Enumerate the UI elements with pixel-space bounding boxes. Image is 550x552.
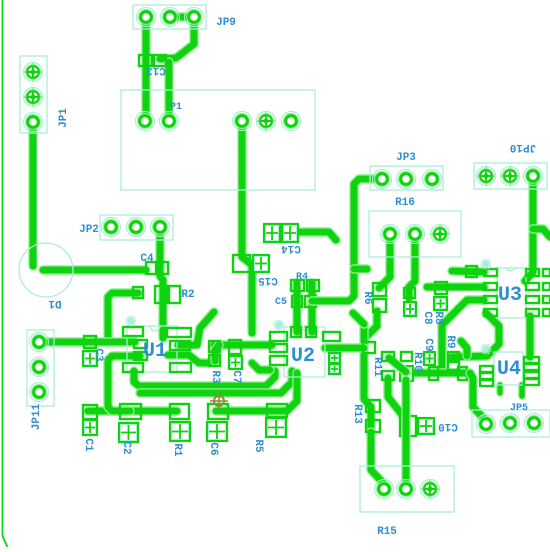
resistor R6: [373, 283, 386, 312]
wire P1-3 down to C15: [242, 121, 252, 333]
wire R4-1 C5-1 to U2: [292, 283, 301, 332]
capacitor C3: [84, 336, 96, 348]
wire horizontal R10 row: [409, 368, 470, 377]
svg-text:R3: R3: [209, 370, 221, 384]
resistor R16: [369, 211, 461, 257]
wire JP10-3 down to U3: [525, 176, 533, 281]
op-amp U2: [270, 327, 340, 377]
origin marker: [210, 392, 228, 410]
capacitor C2: [120, 404, 141, 419]
pad node C: [466, 266, 477, 277]
wire node to U1 pin1 elbow: [108, 293, 138, 338]
capacitor C6: [208, 404, 228, 419]
op-amp U3: [484, 268, 550, 318]
svg-text:JP9: JP9: [216, 17, 236, 29]
wire R4-2 C5-2 to U2: [307, 283, 316, 332]
wire JP9-3 to C13-2: [160, 17, 194, 59]
svg-text:U4: U4: [497, 358, 521, 381]
capacitor C10: [400, 416, 416, 436]
svg-text:C14: C14: [281, 242, 301, 254]
resistor R9: [448, 352, 459, 370]
wire U4 stub down: [518, 385, 526, 396]
svg-text:C7: C7: [230, 370, 242, 383]
pin1 mark U1: [126, 316, 137, 327]
pad node E: [458, 367, 467, 380]
svg-text:U2: U2: [291, 345, 315, 368]
diode D1 outline: [19, 243, 73, 297]
svg-text:R15: R15: [377, 526, 397, 538]
wire JP9-1 to P1-1: [141, 17, 150, 121]
svg-text:R16: R16: [395, 197, 415, 209]
op-amp U4: [480, 352, 539, 386]
svg-text:C6: C6: [207, 442, 219, 455]
svg-text:C13: C13: [146, 64, 166, 76]
wire long bottom trace B: [140, 371, 292, 393]
svg-text:C4: C4: [140, 253, 154, 265]
pin1 mark U2: [274, 320, 285, 331]
board edge: [3, 0, 8, 547]
connector JP5: [472, 410, 550, 437]
capacitor C1: [83, 405, 97, 419]
svg-text:R8: R8: [432, 311, 444, 325]
capacitor C4: [146, 262, 168, 274]
connector JP11: [27, 330, 54, 406]
wire JP2-3 down through C4 R2 to U1: [160, 227, 163, 338]
wire stub cap to vertical: [353, 313, 364, 324]
wire R11-1 diagonal: [389, 358, 406, 372]
wire U1 pin to C1 row: [88, 406, 177, 415]
connector JP9: [133, 5, 206, 29]
capacitor C15: [233, 255, 250, 272]
svg-text:C3: C3: [92, 348, 104, 362]
resistor R8: [435, 282, 447, 294]
wire JP10 branch right: [533, 229, 550, 237]
pad node B: [363, 342, 375, 353]
resistor R13: [366, 400, 380, 432]
wire JP11-1 to U1: [39, 337, 135, 346]
svg-text:C8: C8: [421, 311, 433, 325]
wire JP1-3 down-right: [28, 122, 37, 266]
svg-text:C10: C10: [438, 420, 458, 432]
resistor R11: [382, 352, 394, 380]
wire U3 right col to U4: [525, 316, 534, 357]
svg-text:JP11: JP11: [31, 403, 43, 430]
resistor R15: [360, 466, 454, 512]
wire U3 pin4 pentagon right: [452, 313, 499, 357]
pad node A: [133, 287, 143, 298]
pin1 mark U3: [481, 259, 492, 270]
wire main vertical to R13: [364, 325, 371, 432]
wire to JP5-1: [470, 373, 486, 421]
wire U3 pin3 long diagonal down: [430, 300, 484, 373]
connector JP1: [20, 56, 47, 133]
capacitor C5: [292, 296, 316, 307]
wire R8 to U3 pin2: [427, 282, 484, 291]
connector JP10: [474, 163, 547, 189]
wire JP9-2 to JP9-3: [170, 12, 194, 21]
svg-text:D1: D1: [48, 297, 62, 309]
wire U1 pin4 long bottom trace A: [134, 371, 275, 386]
svg-text:JP1: JP1: [58, 108, 70, 128]
svg-text:JP3: JP3: [396, 152, 416, 164]
wire trace to R3 C7 U2: [214, 340, 272, 349]
wire R6-2 down to node: [365, 311, 377, 338]
connector P1: [121, 90, 315, 190]
wire R13 to R15-1: [371, 432, 384, 489]
svg-text:R9: R9: [444, 335, 456, 348]
wire U1 pin3 elbow down: [108, 356, 140, 411]
svg-text:R2: R2: [181, 289, 194, 301]
svg-text:JP5: JP5: [510, 403, 528, 414]
svg-text:R5: R5: [252, 439, 264, 453]
pin1 mark U4: [481, 344, 492, 355]
resistor R5: [267, 404, 287, 417]
wire U2 to vertical: [325, 343, 364, 352]
wire C6 row to U2: [216, 373, 297, 411]
svg-text:R1: R1: [171, 443, 183, 457]
capacitor C8: [404, 288, 415, 298]
svg-text:U1: U1: [143, 340, 167, 363]
resistor R1: [170, 404, 189, 419]
svg-text:R13: R13: [351, 404, 363, 424]
wire R9 hook: [461, 341, 467, 356]
wire R16-2 to C8: [409, 234, 415, 298]
svg-text:U3: U3: [498, 284, 522, 307]
wire U1 pin to R3 jog: [168, 355, 211, 363]
wire R16-1 to R6: [379, 234, 390, 288]
wire U2 lower-left hook: [252, 363, 270, 370]
svg-text:C2: C2: [120, 441, 132, 454]
connector JP3: [370, 166, 443, 190]
svg-text:R11: R11: [371, 357, 383, 377]
capacitor C14: [264, 224, 280, 242]
resistor R3: [209, 341, 220, 366]
op-amp U1: [123, 326, 191, 372]
svg-text:JP2: JP2: [79, 224, 99, 236]
svg-text:R10: R10: [411, 352, 423, 372]
resistor R4: [291, 280, 319, 291]
svg-text:C9: C9: [422, 338, 434, 351]
capacitor C7: [229, 340, 241, 354]
resistor R2: [155, 286, 180, 303]
pad node D: [429, 367, 438, 380]
svg-text:R4: R4: [296, 272, 308, 283]
connector JP2: [100, 215, 173, 240]
wire C13-2 to P1-2: [164, 62, 173, 121]
svg-text:C5: C5: [275, 297, 287, 308]
wire R3 elbow: [215, 345, 219, 361]
wire JP3 stub: [354, 264, 367, 273]
wire U1 right pin stub: [178, 312, 214, 345]
resistor R10: [401, 352, 412, 361]
capacitor C13: [139, 55, 166, 66]
svg-text:JP10: JP10: [510, 141, 536, 153]
wire R15-2 up: [401, 380, 410, 489]
wire U4 stub down left: [496, 385, 504, 393]
svg-text:R6: R6: [361, 291, 373, 304]
wire C14-2 stub: [290, 232, 336, 240]
wire R11-2 to C10: [388, 378, 403, 416]
svg-text:P1: P1: [170, 102, 182, 113]
wire stub to U3 pin1: [452, 271, 484, 272]
capacitor C9: [424, 352, 435, 365]
wire JP3-1 down to C5: [312, 179, 382, 301]
svg-text:C1: C1: [82, 438, 94, 452]
svg-text:C15: C15: [258, 274, 278, 286]
